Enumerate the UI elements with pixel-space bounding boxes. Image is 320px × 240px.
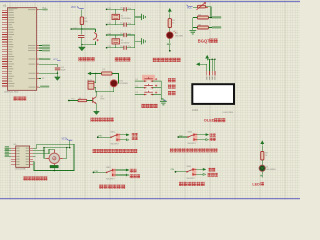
label red pir inside bbox=[93, 149, 97, 153]
label red OLED bbox=[204, 118, 226, 123]
label red wuren sw3 bbox=[210, 133, 213, 136]
crystal circuit 2 bbox=[106, 33, 146, 50]
label red guanmen bbox=[168, 91, 172, 95]
oled pin names bbox=[206, 76, 215, 79]
svg-text:C3: C3 bbox=[120, 46, 122, 48]
label red BGQ7 bbox=[198, 39, 218, 44]
wire rst rail bbox=[70, 28, 95, 30]
label red weichufa sw4 bbox=[208, 173, 211, 177]
arrows sw3 bbox=[197, 134, 209, 141]
transistor Q1 bbox=[93, 96, 105, 112]
button K1 bbox=[135, 75, 162, 82]
label red kaimen bbox=[168, 84, 172, 88]
switch SW4 bbox=[171, 166, 196, 180]
uln pins bbox=[11, 148, 33, 165]
svg-text:1k: 1k bbox=[265, 155, 267, 157]
svg-text:K2: K2 bbox=[136, 85, 138, 87]
uln left net labels bbox=[5, 146, 9, 156]
net label below D1 bbox=[167, 43, 171, 51]
svg-text:OLED: OLED bbox=[204, 118, 215, 123]
resistor R4 bbox=[68, 98, 93, 102]
label red chufa sw2 bbox=[130, 169, 133, 173]
svg-text:LED-GREEN: LED-GREEN bbox=[266, 169, 277, 171]
terminal arrow alarm bbox=[88, 72, 97, 75]
svg-text:P34: P34 bbox=[171, 169, 174, 171]
resistor R8 bbox=[193, 24, 221, 29]
wire collector rail bbox=[96, 91, 114, 96]
stepper motor bbox=[46, 150, 63, 168]
svg-text:ULN2003A: ULN2003A bbox=[15, 168, 26, 171]
reset button branch bbox=[81, 29, 99, 45]
label red shezhi bbox=[168, 78, 172, 82]
label red keys bbox=[142, 104, 146, 108]
oled pin stubs bbox=[207, 71, 215, 75]
capacitor C4 loop bbox=[37, 64, 67, 80]
svg-text:VCC: VCC bbox=[62, 139, 67, 141]
svg-text:U1: U1 bbox=[3, 4, 7, 8]
label red limit outside bbox=[179, 182, 183, 186]
power arrow lamp bbox=[261, 141, 264, 152]
ground reset bbox=[81, 45, 83, 47]
label red alarm bbox=[91, 118, 95, 122]
label red youren sw1 bbox=[132, 137, 135, 140]
label red stepper bbox=[23, 176, 27, 180]
arrows sw4 bbox=[196, 168, 206, 175]
power arrow oled bbox=[206, 58, 208, 60]
svg-text:P10: P10 bbox=[71, 98, 74, 100]
svg-text:LED: LED bbox=[252, 182, 260, 186]
svg-text:SW-SPDT: SW-SPDT bbox=[106, 179, 116, 181]
label red wuren sw1 bbox=[132, 133, 135, 136]
arrows sw2 bbox=[116, 169, 129, 176]
svg-text:LCD1: LCD1 bbox=[192, 109, 199, 112]
svg-text:11.0592MHz: 11.0592MHz bbox=[121, 18, 131, 20]
power vcc motor bbox=[62, 138, 73, 147]
svg-text:VCC: VCC bbox=[187, 8, 192, 10]
resistor R2 bbox=[80, 17, 88, 29]
svg-text:SW-SPDT: SW-SPDT bbox=[188, 143, 198, 145]
sheet border bottom bbox=[0, 198, 300, 200]
button K2 bbox=[135, 83, 162, 88]
svg-text:SOUNDER: SOUNDER bbox=[119, 83, 128, 85]
resistor R3 bbox=[193, 14, 221, 19]
mcu U1 bbox=[3, 4, 37, 91]
svg-text:SW-SPDT: SW-SPDT bbox=[111, 143, 121, 145]
switch SW1 bbox=[97, 132, 120, 146]
svg-text:LED-RED: LED-RED bbox=[175, 36, 184, 38]
crystal X1 bbox=[115, 35, 117, 48]
svg-text:32.768kHz: 32.768kHz bbox=[121, 42, 130, 44]
resistor R7 bbox=[261, 152, 268, 166]
net label below D3 bbox=[260, 175, 263, 178]
svg-text:VCC: VCC bbox=[71, 7, 76, 9]
buzzer BUZ1 bbox=[87, 74, 96, 92]
label red pir outside bbox=[170, 148, 174, 152]
uln pin names bbox=[16, 148, 28, 165]
power vcc reset bbox=[71, 7, 84, 17]
switch SW2 bbox=[93, 167, 116, 181]
crystal X2 bbox=[115, 9, 117, 24]
label red youren sw3 bbox=[210, 138, 213, 141]
mcu U1 left pins bbox=[2, 10, 8, 86]
wires port pins bbox=[37, 45, 50, 52]
label red crystal bbox=[115, 57, 119, 61]
grid background bbox=[0, 0, 300, 200]
label red mcu bbox=[14, 97, 18, 101]
svg-text:K3: K3 bbox=[136, 92, 138, 94]
led D1 red bbox=[167, 31, 184, 44]
wire p07 pin bbox=[37, 86, 50, 88]
wire key bus bbox=[161, 81, 163, 101]
label red weichufa sw2 bbox=[130, 174, 133, 178]
ground keys bbox=[160, 99, 167, 105]
label red reset bbox=[79, 57, 83, 61]
wire vcc pin40 bbox=[37, 7, 48, 10]
mcu U1 pin names bbox=[8, 8, 35, 87]
ground Q1 bbox=[94, 111, 100, 114]
thermistor RT1 bbox=[197, 2, 212, 17]
svg-text:C9: C9 bbox=[120, 23, 122, 25]
svg-text:1k: 1k bbox=[172, 23, 174, 25]
svg-text:30pF: 30pF bbox=[61, 70, 66, 72]
label red run indicator bbox=[153, 58, 157, 62]
label red chufa sw4 bbox=[209, 168, 212, 172]
svg-text:VCC: VCC bbox=[53, 59, 58, 61]
motor wires bbox=[33, 144, 74, 171]
resistor R1 bbox=[168, 19, 176, 32]
oled wires bbox=[207, 58, 216, 71]
speaker LS1 bbox=[110, 80, 128, 92]
terminal arrow oled bbox=[199, 63, 207, 65]
label red limit inside bbox=[99, 185, 103, 189]
svg-text:C8: C8 bbox=[120, 7, 122, 9]
wire ale pin bbox=[37, 58, 61, 61]
capacitor C3 bbox=[78, 29, 84, 45]
power vcc bgq7 bbox=[187, 5, 198, 10]
oled screen LCD1 bbox=[192, 84, 234, 114]
svg-text:OLED12864: OLED12864 bbox=[223, 112, 233, 114]
power arrow R1 bbox=[168, 9, 171, 19]
uln2003 U2 bbox=[14, 144, 30, 170]
ground bgq7 bbox=[189, 30, 196, 34]
arrows sw1 bbox=[120, 134, 129, 141]
label red LED lamp bbox=[252, 182, 264, 187]
svg-text:BGQ7: BGQ7 bbox=[198, 39, 210, 44]
sheet border top bbox=[0, 1, 300, 3]
button K3 bbox=[135, 90, 162, 95]
svg-text:SW-SPDT: SW-SPDT bbox=[187, 178, 197, 180]
svg-text:AT89C51.BUS: AT89C51.BUS bbox=[4, 91, 19, 94]
wire bgq7 left vertical bbox=[192, 18, 194, 31]
wire psen pin bbox=[37, 78, 45, 80]
uln left wires bbox=[5, 148, 11, 156]
svg-text:C2: C2 bbox=[120, 33, 122, 35]
resistor R5 bbox=[96, 69, 119, 83]
switch SW3 bbox=[177, 131, 197, 145]
crystal circuit 1 bbox=[106, 7, 146, 27]
led D3 green bbox=[259, 165, 276, 175]
svg-text:10k: 10k bbox=[84, 21, 87, 23]
svg-text:K1: K1 bbox=[136, 79, 138, 81]
